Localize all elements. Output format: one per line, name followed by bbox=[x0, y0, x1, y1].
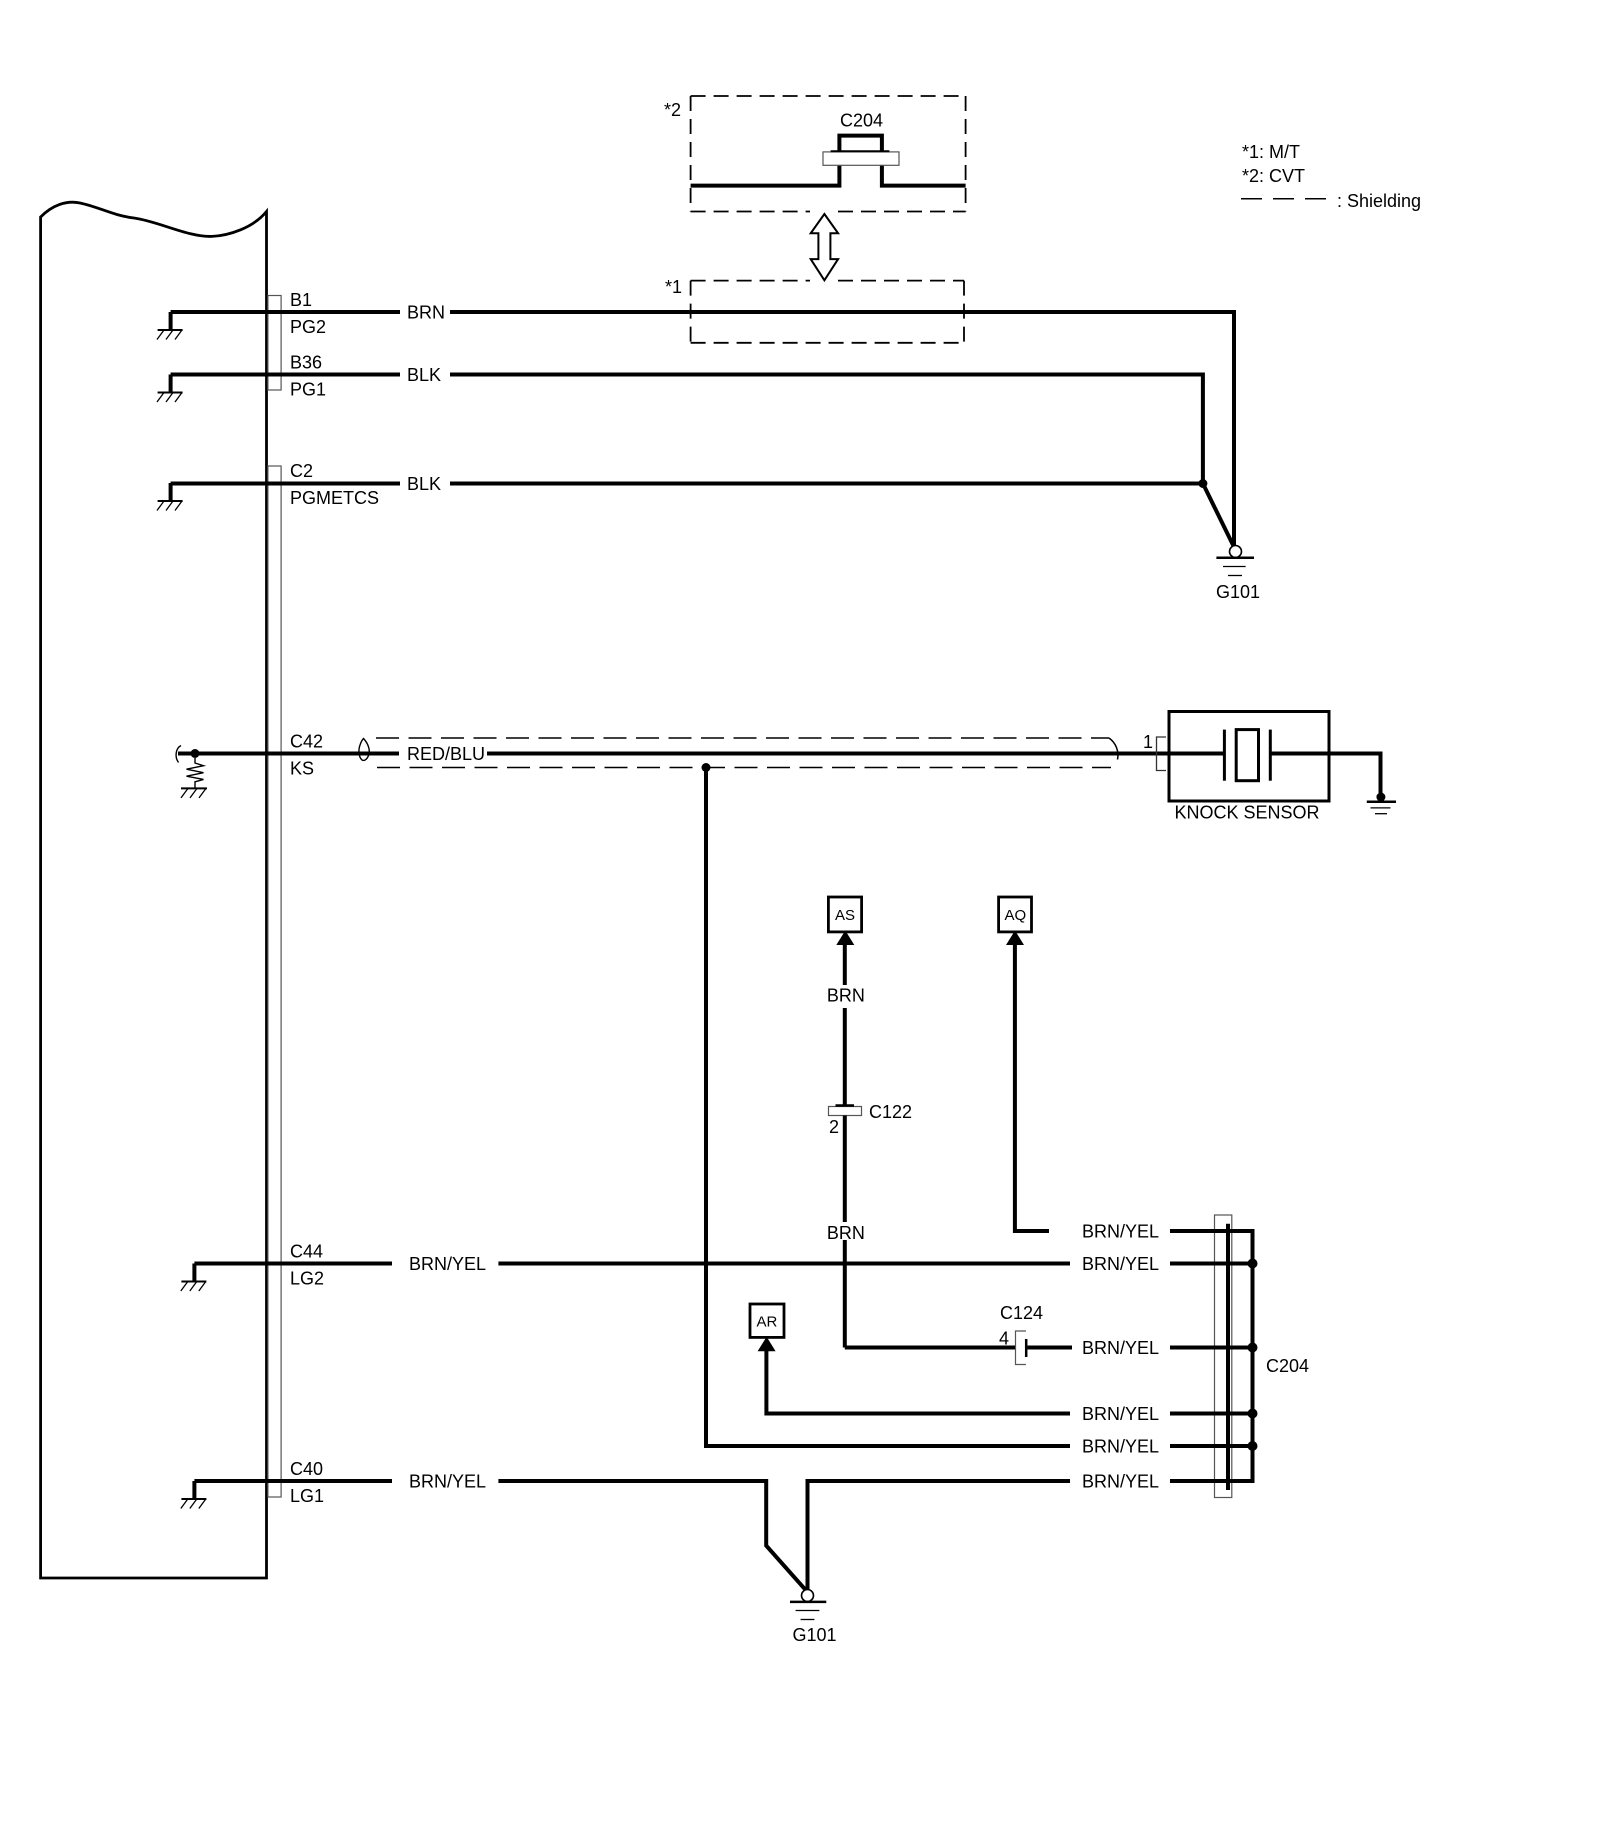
svg-text:RED/BLU: RED/BLU bbox=[407, 744, 485, 764]
svg-text:BRN/YEL: BRN/YEL bbox=[1082, 1222, 1159, 1242]
svg-text:AQ: AQ bbox=[1005, 907, 1027, 924]
wire BRN below C122 bbox=[843, 1116, 847, 1223]
svg-text:LG1: LG1 bbox=[290, 1486, 324, 1506]
svg-text:PGMETCS: PGMETCS bbox=[290, 488, 379, 508]
wire C204 bus bbox=[1251, 1229, 1255, 1483]
svg-text:B36: B36 bbox=[290, 353, 322, 373]
shield entry symbol (teardrop) bbox=[359, 739, 369, 761]
svg-text:C124: C124 bbox=[1000, 1303, 1043, 1323]
svg-text:BRN/YEL: BRN/YEL bbox=[409, 1254, 486, 1274]
connector C204 (bottom) bbox=[1215, 1215, 1232, 1498]
wire B1 BRN to G101 bbox=[450, 312, 1234, 546]
node: junction dot shield drain bbox=[702, 763, 711, 772]
svg-text:C2: C2 bbox=[290, 461, 313, 481]
svg-text:BRN/YEL: BRN/YEL bbox=[1082, 1254, 1159, 1274]
svg-text:*1: *1 bbox=[665, 277, 682, 297]
svg-text:AS: AS bbox=[835, 907, 855, 924]
svg-text:C122: C122 bbox=[869, 1102, 912, 1122]
arrow into AS bbox=[836, 931, 854, 946]
ground (chassis) at pin B36 PG1 bbox=[157, 375, 183, 403]
wire B36 BLK (ECM internal) bbox=[171, 373, 400, 377]
svg-text:G101: G101 bbox=[1216, 582, 1260, 602]
wire C42 RED/BLU to knock sensor bbox=[487, 752, 1224, 756]
wire C2 BLK to junction bbox=[450, 482, 1203, 486]
svg-text:C204: C204 bbox=[1266, 1356, 1309, 1376]
resistor (KS shield drain) inside ECM bbox=[181, 758, 207, 798]
terminal box AS bbox=[828, 897, 861, 932]
wire C2 BLK (ECM internal) bbox=[171, 482, 400, 486]
knock sensor box bbox=[1169, 712, 1329, 802]
svg-text:LG2: LG2 bbox=[290, 1269, 324, 1289]
svg-text:PG2: PG2 bbox=[290, 317, 326, 337]
ground (knock sensor) bbox=[1367, 793, 1396, 814]
dashed box *1 (M/T) bbox=[691, 281, 964, 343]
wire shield drain down to BRN/YEL row bbox=[706, 768, 1070, 1447]
node: bus junction dot row2 bbox=[1248, 1259, 1258, 1269]
wire BRN/YEL C124 to C204 bbox=[1028, 1346, 1073, 1350]
knock sensor pin 1 bracket bbox=[1157, 737, 1167, 771]
wire BRN/YEL from C204 row1 to AQ bbox=[1015, 945, 1049, 1232]
terminal box AR bbox=[750, 1304, 784, 1337]
wire B1 BRN (ECM internal) bbox=[171, 310, 400, 314]
svg-text:C44: C44 bbox=[290, 1242, 323, 1262]
svg-text:BLK: BLK bbox=[407, 365, 441, 385]
connector C122 bbox=[829, 1107, 862, 1116]
svg-text:BRN/YEL: BRN/YEL bbox=[1082, 1404, 1159, 1424]
dashed box *2 (CVT) bbox=[691, 96, 966, 212]
svg-text:C204: C204 bbox=[840, 111, 883, 131]
svg-text:BRN/YEL: BRN/YEL bbox=[409, 1472, 486, 1492]
svg-text:C42: C42 bbox=[290, 732, 323, 752]
svg-text:KS: KS bbox=[290, 759, 314, 779]
svg-text:G101: G101 bbox=[793, 1625, 837, 1645]
wire BRN from C122 to AS bbox=[843, 945, 847, 986]
ground (chassis) at pin C40 LG1 bbox=[181, 1481, 207, 1509]
double arrow between *2 and *1 bbox=[811, 214, 838, 280]
svg-text:BRN/YEL: BRN/YEL bbox=[1082, 1437, 1159, 1457]
ground G101 (bottom) bbox=[790, 1590, 826, 1620]
wire row3 into C204 bbox=[1170, 1346, 1253, 1350]
svg-text:B1: B1 bbox=[290, 290, 312, 310]
svg-text:KNOCK SENSOR: KNOCK SENSOR bbox=[1175, 803, 1320, 823]
wire row4 into C204 bbox=[1170, 1412, 1253, 1416]
wire BRN/YEL C122 chain to C124 bbox=[845, 1346, 1015, 1350]
svg-text:AR: AR bbox=[757, 1314, 778, 1331]
svg-text:BRN: BRN bbox=[827, 986, 865, 1006]
ground (chassis) at pin C44 LG2 bbox=[181, 1264, 207, 1292]
wire C42 RED/BLU (left part with curl) bbox=[176, 746, 181, 763]
connector strip B (pins B1,B36) bbox=[268, 296, 281, 391]
node: junction dot BLK wires bbox=[1198, 479, 1207, 488]
wire BRN/YEL C204 row6 to G101 bbox=[808, 1481, 1071, 1590]
connector C124 bbox=[1016, 1331, 1027, 1365]
connector C204 (top, in *2 box) bbox=[691, 136, 966, 186]
svg-text:*2: CVT: *2: CVT bbox=[1242, 166, 1305, 186]
ground (chassis) at pin B1 PG2 bbox=[157, 312, 183, 340]
ECM/PCM box (wavy-top enclosure) bbox=[41, 202, 267, 1578]
legend shielding dash sample bbox=[1241, 198, 1327, 200]
svg-text:C40: C40 bbox=[290, 1459, 323, 1479]
svg-text:PG1: PG1 bbox=[290, 380, 326, 400]
svg-text:BLK: BLK bbox=[407, 474, 441, 494]
svg-text:1: 1 bbox=[1143, 732, 1153, 752]
connector strip C (pins C2,C42,C44,C40) bbox=[268, 466, 281, 1497]
terminal box AQ bbox=[999, 897, 1032, 932]
wire row2 into C204 bbox=[1170, 1262, 1253, 1266]
svg-text:2: 2 bbox=[829, 1117, 839, 1137]
wire C44 BRN/YEL to C204 bbox=[498, 1262, 1070, 1266]
node: bus junction dot row5 bbox=[1248, 1441, 1258, 1451]
wire B36 BLK to junction bbox=[450, 375, 1203, 484]
svg-text:: Shielding: : Shielding bbox=[1337, 191, 1421, 211]
node: junction dot C42 wire to resistor bbox=[191, 749, 200, 758]
svg-text:BRN: BRN bbox=[827, 1223, 865, 1243]
svg-text:BRN/YEL: BRN/YEL bbox=[1082, 1338, 1159, 1358]
knock sensor piezo element bbox=[1170, 752, 1224, 756]
wire C40 BRN/YEL to G101 bbox=[498, 1481, 805, 1590]
svg-text:BRN: BRN bbox=[407, 303, 445, 323]
wire row5 into C204 bbox=[1170, 1444, 1253, 1448]
shielding (dashed envelope around RED/BLU) bbox=[376, 738, 1118, 768]
ground G101 (top right) bbox=[1216, 546, 1254, 576]
ground (chassis) at pin C2 PGMETCS bbox=[157, 483, 183, 511]
wire knock sensor to ground bbox=[1329, 754, 1381, 794]
arrow into AR bbox=[758, 1337, 776, 1352]
wire C40 BRN/YEL (ECM internal) bbox=[194, 1479, 392, 1483]
wire row1 into C204 bbox=[1170, 1229, 1253, 1233]
svg-text:*1: M/T: *1: M/T bbox=[1242, 142, 1300, 162]
wire BLK junction to G101 (diagonal) bbox=[1203, 484, 1234, 547]
node: bus junction dot row3 bbox=[1248, 1343, 1258, 1353]
node: bus junction dot row4 bbox=[1248, 1409, 1258, 1419]
svg-text:BRN/YEL: BRN/YEL bbox=[1082, 1472, 1159, 1492]
wire BRN/YEL from C204 row4 to AR bbox=[766, 1351, 1070, 1414]
svg-text:*2: *2 bbox=[664, 100, 681, 120]
wire C44 BRN/YEL (ECM internal) bbox=[194, 1262, 392, 1266]
arrow into AQ bbox=[1006, 931, 1024, 946]
wire row6 into C204 bbox=[1170, 1479, 1253, 1483]
